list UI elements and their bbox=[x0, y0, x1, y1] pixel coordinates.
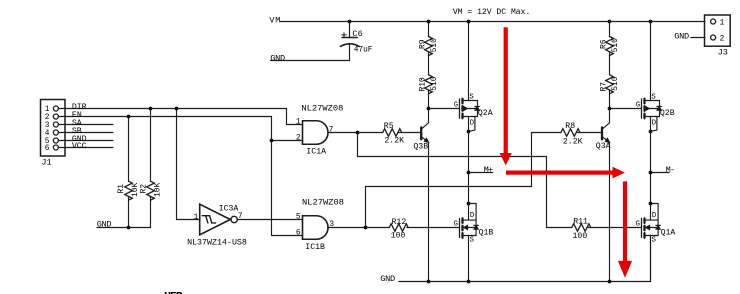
svg-text:2.2K: 2.2K bbox=[563, 138, 583, 147]
svg-text:3: 3 bbox=[45, 122, 50, 130]
resistor R6 bbox=[600, 22, 620, 75]
svg-text:VCC: VCC bbox=[72, 142, 87, 151]
wire red current arrow 3 (down) bbox=[618, 181, 632, 277]
node junction dots bbox=[127, 20, 653, 284]
wire GND to C6 bbox=[270, 45, 349, 61]
svg-text:R12: R12 bbox=[392, 218, 407, 227]
wire Q2A drain to M+ to Q1B drain bbox=[468, 132, 470, 204]
node VM net label bbox=[269, 15, 280, 25]
wire SB stub bbox=[58, 132, 113, 134]
svg-text:R10: R10 bbox=[419, 77, 428, 91]
wire VM rail bbox=[280, 21, 705, 23]
node GND bottom label bbox=[380, 274, 395, 284]
connector J1 bbox=[41, 100, 66, 168]
svg-text:4: 4 bbox=[45, 130, 50, 138]
node cropped text bottom edge bbox=[164, 290, 183, 294]
svg-text:S: S bbox=[470, 236, 474, 244]
wire gate Q2B bbox=[610, 108, 642, 110]
svg-text:7: 7 bbox=[329, 127, 334, 135]
connector J3 bbox=[705, 15, 731, 58]
wire IC1A output bbox=[328, 132, 357, 134]
gate IC1A NL27WZ08 bbox=[296, 103, 344, 156]
svg-text:R5: R5 bbox=[384, 122, 394, 131]
wire DIR to inverter bbox=[177, 109, 200, 220]
svg-text:G: G bbox=[636, 102, 640, 110]
resistor R11 bbox=[572, 218, 642, 241]
svg-text:R7: R7 bbox=[600, 82, 609, 92]
svg-text:G: G bbox=[454, 102, 458, 110]
svg-text:NL27WZ08: NL27WZ08 bbox=[302, 198, 344, 208]
svg-text:D: D bbox=[652, 120, 656, 128]
node GND top-left label bbox=[270, 54, 285, 64]
svg-text:S: S bbox=[652, 236, 656, 244]
wire Q3A emitter down bbox=[609, 142, 611, 281]
wire EN branch to IC1A pin2 bbox=[272, 140, 303, 142]
svg-text:S: S bbox=[651, 93, 655, 101]
resistor R9 bbox=[419, 22, 439, 75]
svg-text:D: D bbox=[470, 120, 474, 128]
node M- bbox=[651, 165, 676, 175]
svg-text:Q2A: Q2A bbox=[478, 109, 493, 118]
svg-text:10K: 10K bbox=[153, 183, 162, 197]
svg-text:6: 6 bbox=[45, 145, 50, 153]
svg-text:NL37WZ14-US8: NL37WZ14-US8 bbox=[187, 237, 247, 247]
svg-text:Q3A: Q3A bbox=[596, 142, 611, 151]
svg-text:G: G bbox=[636, 221, 640, 229]
capacitor C6 bbox=[340, 22, 372, 55]
wire IC1A out down-right run bbox=[358, 133, 547, 228]
text VM = 12V DC Max. bbox=[453, 7, 530, 17]
wire IC1B out up-right run bbox=[366, 133, 532, 228]
svg-text:GND: GND bbox=[380, 274, 395, 284]
svg-text:2: 2 bbox=[720, 35, 725, 43]
wire GND left stub bbox=[97, 227, 151, 229]
wire Q3B collector bbox=[428, 109, 430, 116]
resistor R7 bbox=[600, 75, 620, 109]
wire SA stub bbox=[58, 124, 113, 126]
wire GND to J3 pin2 bbox=[691, 37, 705, 39]
svg-text:510: 510 bbox=[430, 38, 439, 52]
svg-text:510: 510 bbox=[611, 38, 620, 52]
transistor Q2A (P-MOSFET) bbox=[454, 22, 493, 132]
transistor Q1A (N-MOSFET) bbox=[636, 204, 676, 282]
resistor R12 bbox=[389, 218, 459, 240]
svg-text:Q1A: Q1A bbox=[661, 228, 676, 237]
svg-text:R9: R9 bbox=[419, 39, 428, 49]
svg-text:R2: R2 bbox=[140, 184, 149, 194]
svg-text:2: 2 bbox=[296, 135, 301, 143]
resistor R5 bbox=[358, 122, 421, 146]
svg-text:VM = 12V DC Max.: VM = 12V DC Max. bbox=[453, 7, 530, 17]
node M+ bbox=[469, 165, 494, 175]
svg-text:IC1A: IC1A bbox=[306, 148, 326, 157]
svg-text:M-: M- bbox=[666, 165, 675, 175]
node GND label at J3 bbox=[674, 31, 689, 41]
svg-text:2: 2 bbox=[45, 114, 50, 122]
svg-text:510: 510 bbox=[430, 76, 439, 90]
svg-text:GND: GND bbox=[674, 31, 689, 41]
transistor Q3B bbox=[413, 116, 428, 152]
svg-text:GND: GND bbox=[270, 54, 285, 64]
svg-text:VM: VM bbox=[269, 15, 280, 25]
resistor R8 bbox=[561, 122, 601, 147]
node J1 pin labels bbox=[72, 103, 87, 151]
wire EN bbox=[58, 117, 302, 236]
wire GND stub bbox=[58, 140, 113, 142]
svg-text:10K: 10K bbox=[131, 183, 140, 197]
svg-text:D: D bbox=[470, 212, 474, 220]
node GND left label bbox=[97, 220, 112, 230]
resistor R10 bbox=[419, 75, 439, 109]
svg-text:100: 100 bbox=[391, 232, 406, 241]
svg-text:1: 1 bbox=[296, 119, 301, 127]
wire Q3B emitter down bbox=[428, 142, 430, 281]
svg-text:3: 3 bbox=[329, 221, 334, 229]
svg-text:S: S bbox=[469, 93, 473, 101]
wire R8 feed run bbox=[532, 132, 562, 134]
svg-text:IC1B: IC1B bbox=[305, 243, 325, 252]
transistor Q3A bbox=[596, 116, 611, 151]
transistor Q1B (N-MOSFET) bbox=[454, 204, 494, 282]
wire red current arrow 1 (down) bbox=[500, 27, 512, 165]
wire VCC stub bbox=[58, 147, 113, 149]
wire DIR bbox=[58, 109, 302, 125]
svg-text:R11: R11 bbox=[573, 218, 588, 227]
resistor R2 bbox=[140, 109, 163, 228]
svg-text:U5B: U5B bbox=[164, 290, 183, 294]
gate IC1B NL27WZ08 bbox=[296, 198, 344, 253]
op-amp IC3A inverter bbox=[187, 204, 247, 248]
wire gate Q2A bbox=[429, 108, 460, 110]
svg-text:IC3A: IC3A bbox=[219, 204, 240, 214]
svg-text:1: 1 bbox=[194, 214, 199, 222]
svg-text:R8: R8 bbox=[565, 122, 575, 131]
svg-text:5: 5 bbox=[296, 214, 301, 222]
wire red current arrow 2 (right) bbox=[506, 167, 625, 179]
wire Q3A collector bbox=[609, 109, 611, 116]
svg-text:J3: J3 bbox=[718, 48, 728, 58]
svg-text:GND: GND bbox=[97, 220, 112, 230]
resistor R1 bbox=[117, 117, 140, 228]
svg-text:100: 100 bbox=[573, 232, 588, 241]
svg-text:1: 1 bbox=[720, 19, 725, 27]
svg-text:G: G bbox=[454, 221, 458, 229]
svg-text:2.2K: 2.2K bbox=[384, 137, 404, 146]
svg-text:Q3B: Q3B bbox=[413, 143, 428, 152]
svg-text:1: 1 bbox=[45, 106, 50, 114]
wire IC1B output row bbox=[328, 227, 390, 229]
svg-text:510: 510 bbox=[611, 76, 620, 90]
svg-text:R1: R1 bbox=[117, 184, 126, 194]
svg-text:Q2B: Q2B bbox=[660, 109, 675, 118]
svg-text:6: 6 bbox=[296, 230, 301, 238]
svg-text:J1: J1 bbox=[41, 158, 51, 168]
wire Q2B drain to M- to Q1A drain bbox=[650, 132, 652, 204]
transistor Q2B (P-MOSFET) bbox=[636, 22, 675, 132]
svg-text:Q1B: Q1B bbox=[479, 228, 494, 237]
wire GND bottom rail bbox=[399, 236, 651, 282]
svg-text:R6: R6 bbox=[600, 39, 609, 49]
wire inverter out to IC1B pin5 bbox=[237, 219, 302, 221]
svg-text:M+: M+ bbox=[484, 165, 493, 175]
svg-text:47uF: 47uF bbox=[354, 44, 373, 54]
wire R11 lead bbox=[547, 227, 572, 229]
svg-text:D: D bbox=[652, 212, 656, 220]
svg-text:C6: C6 bbox=[352, 29, 362, 39]
svg-text:NL27WZ08: NL27WZ08 bbox=[301, 103, 343, 113]
